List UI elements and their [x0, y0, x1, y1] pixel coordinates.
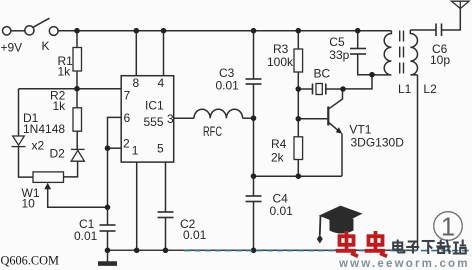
svg-text:3DG130D: 3DG130D: [351, 135, 405, 149]
crystal BC body: [316, 84, 322, 95]
capacitor C3: [246, 79, 262, 84]
wire R3 top stem: [297, 31, 299, 49]
svg-text:555: 555: [144, 115, 164, 129]
svg-text:7: 7: [124, 89, 131, 103]
node supply-R1: [74, 28, 80, 34]
ground symbol bar: [98, 261, 117, 266]
wire W1 wiper to node: [48, 189, 108, 208]
transistor VT1 collector: [329, 89, 343, 109]
node R1-R2-pin7: [74, 86, 80, 92]
node C4-ground: [251, 248, 257, 254]
svg-text:RFC: RFC: [203, 124, 222, 139]
switch K left contact: [25, 26, 34, 35]
diode D1: [12, 136, 26, 147]
node wiper-C1: [105, 205, 111, 211]
svg-text:www.eeworm.com: www.eeworm.com: [338, 258, 470, 270]
wire pin5 to C2: [165, 162, 167, 212]
node supply-R3: [296, 28, 302, 34]
node C5-L1 tank: [369, 72, 375, 78]
svg-text:100k: 100k: [267, 55, 294, 69]
wire C3 bottom to C4: [253, 84, 255, 196]
transistor VT1 emitter: [329, 123, 339, 132]
inductor L2 secondary: [410, 30, 417, 75]
capacitor C2: [158, 212, 174, 218]
node C2-ground: [163, 248, 169, 254]
switch K arm: [33, 18, 49, 27]
wire C1 to ground rail: [107, 231, 109, 250]
wire D1 to W1 left: [19, 147, 34, 178]
wire R1 top stem: [76, 31, 78, 48]
watermark chongchong character 2: [365, 231, 387, 256]
node pin2-pin6: [105, 145, 111, 151]
switch K right contact: [49, 27, 58, 36]
svg-text:BC: BC: [314, 67, 331, 81]
svg-text:1k: 1k: [53, 99, 67, 113]
node R3-R4-base: [296, 116, 302, 122]
resistor R1: [73, 48, 82, 72]
svg-text:8: 8: [133, 76, 140, 90]
wire pin1 ground: [136, 162, 138, 250]
wire R2 top stem: [76, 89, 78, 108]
ground symbol stem: [107, 250, 109, 261]
svg-text:1: 1: [132, 144, 139, 158]
wire R1 bottom stem: [76, 71, 78, 89]
node output terminal circle 1: [434, 212, 463, 242]
watermark graduation cap: [317, 206, 363, 244]
node supply-C5: [355, 28, 361, 34]
wire tank node to collector node: [343, 75, 372, 89]
wire terminal to switch: [11, 30, 25, 32]
node supply-pin8: [134, 28, 140, 34]
transistor VT1 base bar: [327, 107, 329, 126]
svg-text:x2: x2: [32, 139, 45, 153]
svg-text:2k: 2k: [271, 151, 285, 165]
svg-text:K: K: [42, 39, 50, 53]
wire C5 bottom to tank node: [358, 54, 372, 75]
svg-text:R4: R4: [271, 137, 287, 151]
wire D2 to W1 right: [64, 161, 78, 177]
wire pin4 reset: [163, 31, 165, 76]
wire C2 to ground rail: [165, 218, 167, 251]
svg-text:6: 6: [124, 111, 131, 125]
svg-text:10p: 10p: [430, 53, 450, 67]
wire C6 to antenna: [442, 9, 461, 31]
svg-text:0.01: 0.01: [216, 79, 240, 93]
node pin1-ground: [134, 248, 140, 254]
node supply-C3: [251, 28, 257, 34]
svg-text:R3: R3: [273, 42, 289, 56]
wire R3 bottom to node: [297, 72, 299, 119]
watermark teal line: [184, 250, 472, 252]
wire emitter down: [341, 134, 343, 177]
battery terminal +9V: [3, 27, 11, 35]
wire L2 bottom to ground rail: [417, 75, 419, 250]
node C1-ground: [105, 248, 111, 254]
transistor VT1 emitter arrow: [336, 127, 342, 134]
watermark chongchong character 1: [336, 231, 358, 256]
wire C4 to ground rail: [253, 202, 255, 251]
svg-text:Q606.COM: Q606.COM: [1, 254, 59, 268]
svg-text:0.01: 0.01: [74, 229, 98, 243]
resistor R4: [294, 137, 303, 160]
svg-text:L2: L2: [423, 82, 437, 96]
svg-text:4: 4: [158, 76, 165, 90]
node supply-pin4: [161, 28, 167, 34]
ground rail: [108, 249, 418, 251]
node R4-emitter rail: [296, 173, 302, 179]
wire pin7 discharge line: [19, 88, 122, 90]
wire R4 bottom stem: [297, 160, 299, 177]
node R3-crystal: [296, 86, 302, 92]
svg-text:10: 10: [22, 196, 36, 210]
transformer core: [400, 31, 404, 77]
svg-text:2: 2: [123, 137, 130, 151]
svg-text:0.01: 0.01: [183, 228, 207, 242]
watermark site name glyphs: [393, 240, 466, 255]
resistor R2: [73, 108, 82, 131]
node RFC-C3: [251, 115, 257, 121]
wire top supply rail: [58, 30, 391, 32]
wire L2 top to C6: [410, 29, 436, 31]
inductor L1 primary: [372, 31, 391, 75]
capacitor C1: [100, 225, 116, 231]
wire left branch down to D1: [18, 89, 20, 136]
capacitor C5: [350, 49, 366, 55]
wire crystal right to collector node: [326, 88, 343, 90]
node C3-emitter rail: [251, 173, 257, 179]
node crystal-collector: [340, 86, 346, 92]
wire crystal left: [298, 88, 312, 90]
crystal BC left plate: [312, 84, 314, 95]
antenna: [452, 1, 470, 8]
wire pin6 threshold: [108, 117, 122, 225]
svg-text:3: 3: [167, 112, 174, 126]
svg-text:+9V: +9V: [1, 41, 23, 55]
wire pin3 output: [174, 117, 194, 119]
svg-text:1k: 1k: [58, 65, 72, 79]
capacitor C6: [436, 24, 442, 37]
svg-text:L1: L1: [398, 82, 412, 96]
crystal BC right plate: [325, 84, 327, 95]
potentiometer W1 body: [33, 172, 64, 183]
potentiometer W1 wiper arrow: [44, 183, 51, 190]
op-amp IC1 555 body: [121, 76, 174, 162]
wire emitter rail: [254, 175, 343, 177]
svg-text:1: 1: [441, 213, 455, 241]
wire RFC to node: [243, 117, 254, 119]
svg-text:33p: 33p: [329, 48, 349, 62]
wire R2 to D2: [76, 131, 78, 149]
diode D2: [71, 149, 85, 161]
svg-text:D2: D2: [50, 146, 66, 160]
resistor R3: [294, 49, 303, 72]
wire C5 top stem: [357, 31, 359, 49]
svg-text:1N4148: 1N4148: [23, 122, 65, 136]
svg-text:0.01: 0.01: [270, 204, 294, 218]
inductor RFC: [194, 109, 243, 118]
wire pin2 trigger: [108, 147, 122, 149]
svg-text:IC1: IC1: [145, 99, 164, 113]
capacitor C4: [246, 196, 262, 202]
wire pin8 Vcc: [135, 31, 137, 76]
wire node to R4: [297, 119, 299, 137]
wire C3 top stem: [253, 31, 255, 79]
wire base: [298, 118, 327, 120]
svg-text:5: 5: [157, 142, 164, 156]
